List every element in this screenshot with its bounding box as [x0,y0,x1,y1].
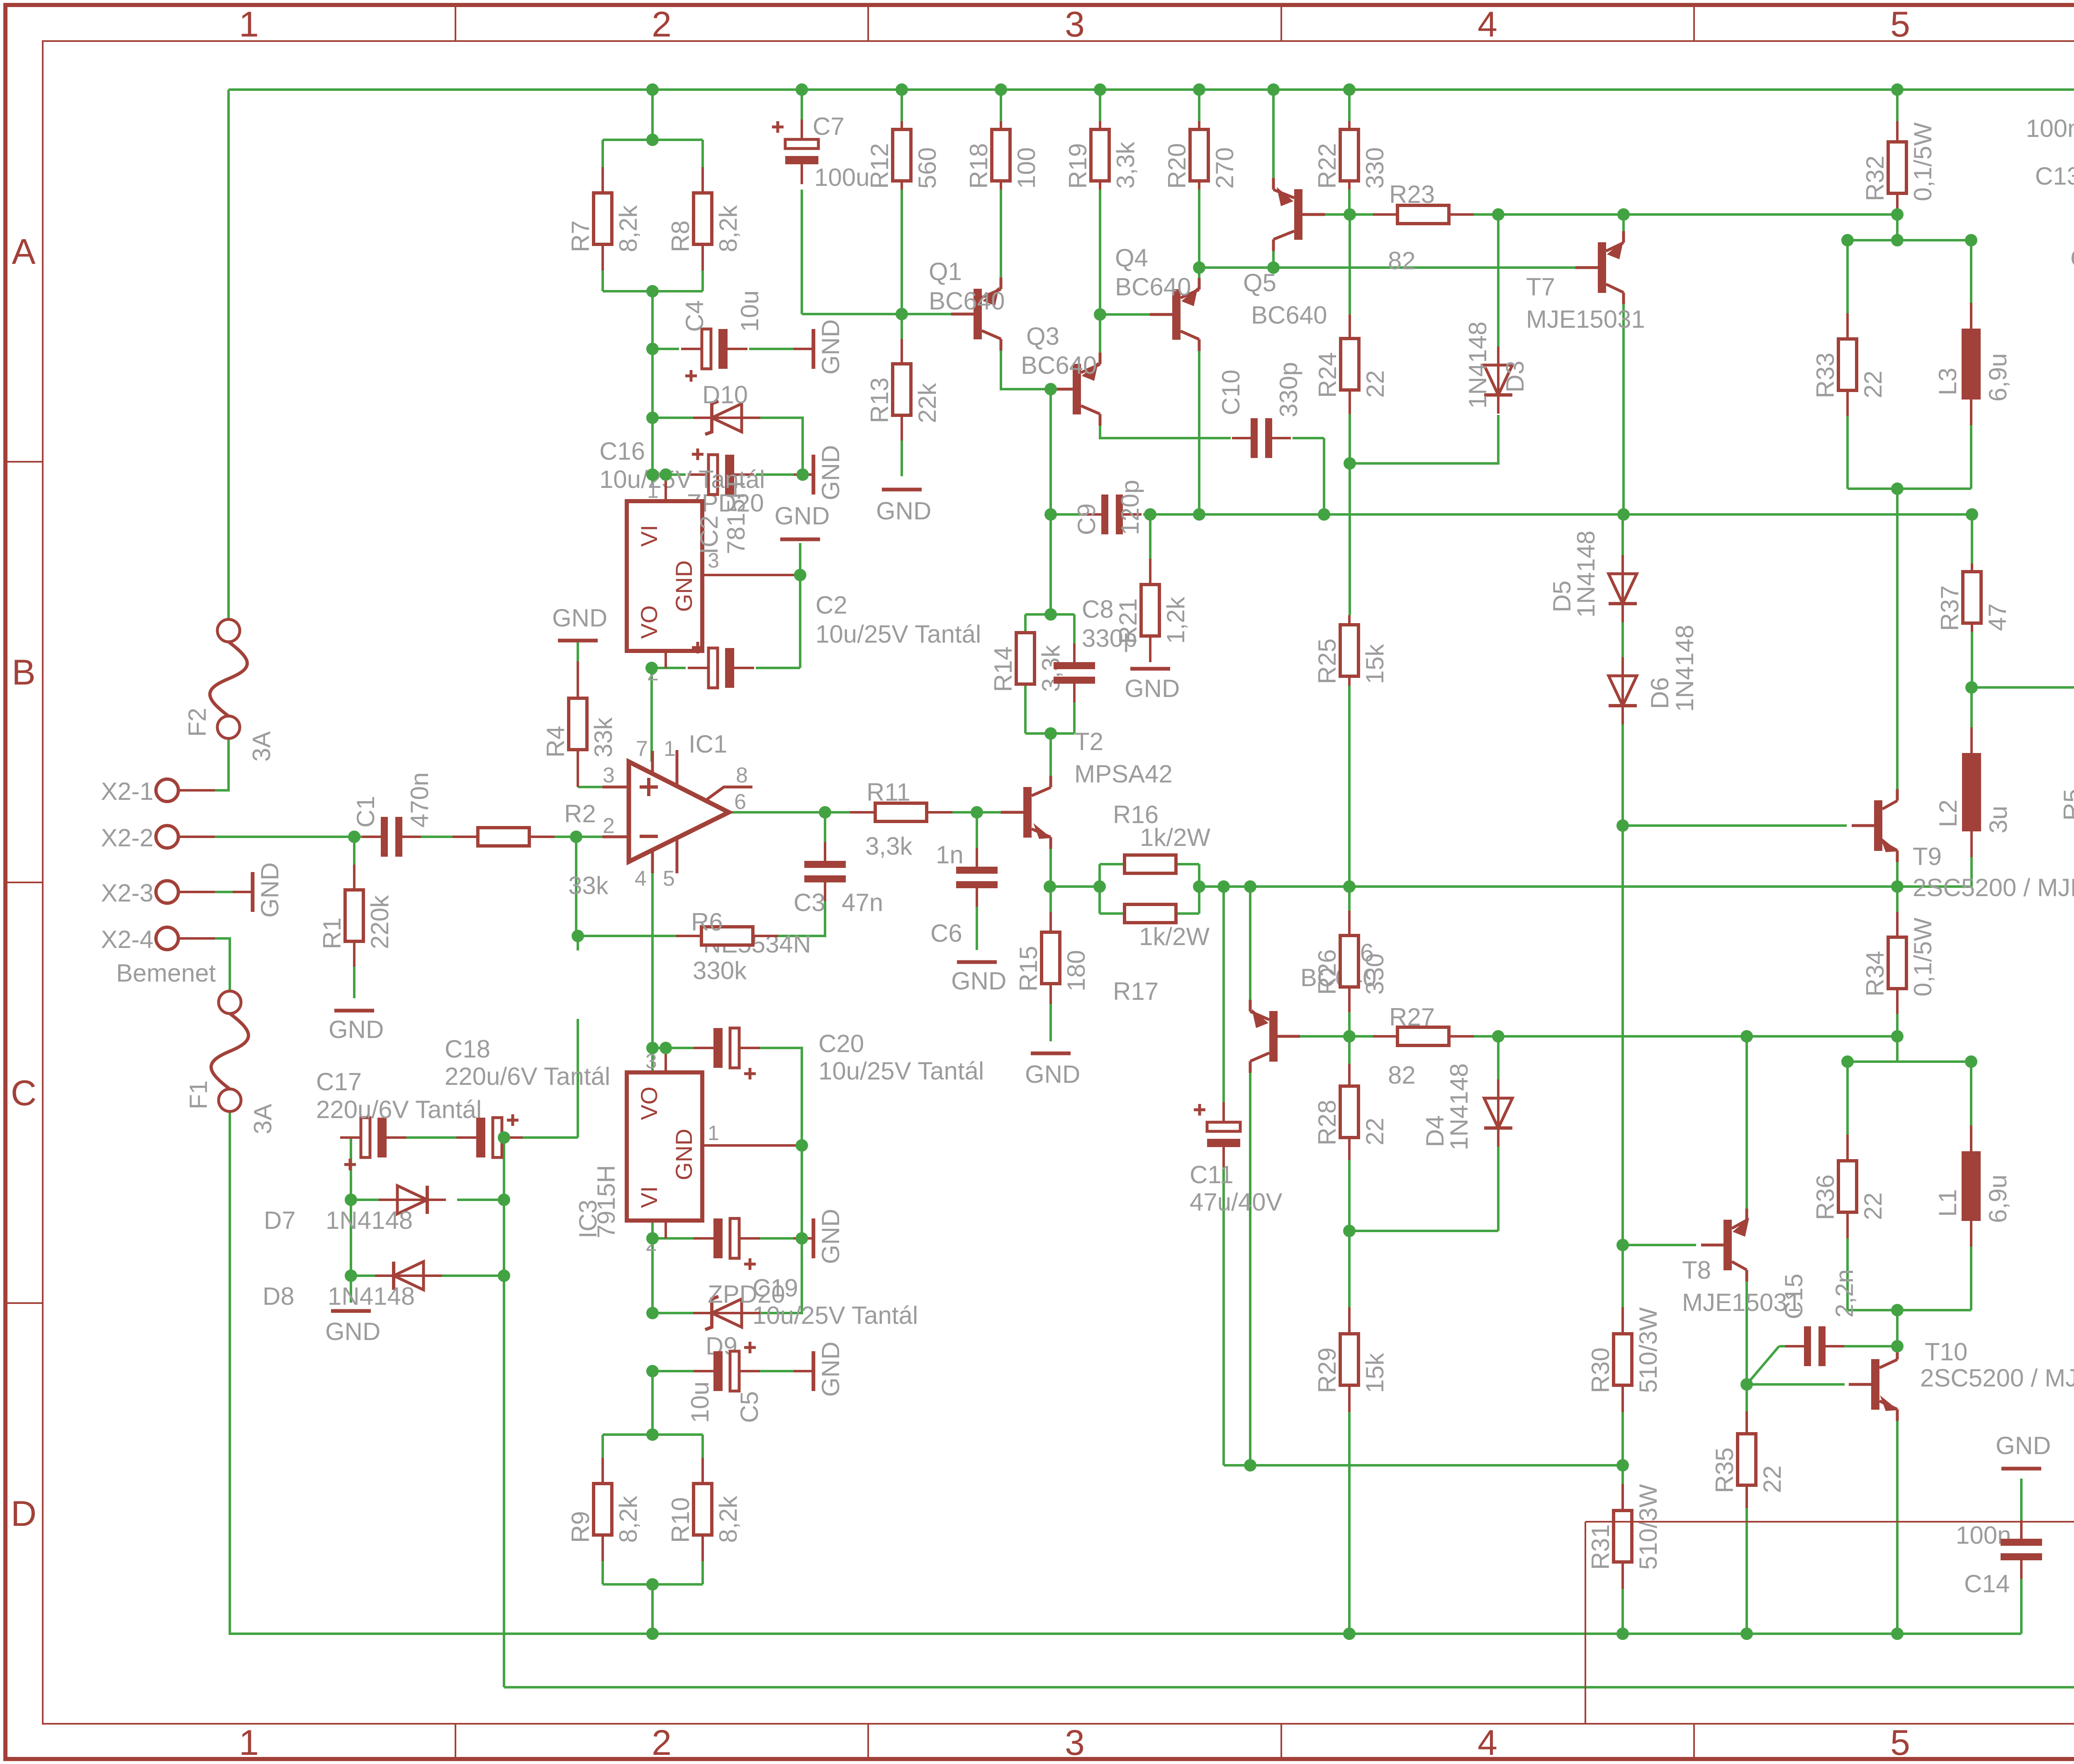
capacitor C20 [694,1028,760,1079]
wire bottom supply rail [229,1632,2021,1635]
wire to R15 [1049,887,1052,912]
wire to T9 base [1623,824,1847,827]
svg-text:220k: 220k [366,895,394,949]
wire to R23 [1349,213,1373,216]
wire D9 to C19 line [742,1238,802,1313]
transistor Q5 [1273,178,1325,251]
svg-text:R31: R31 [1587,1524,1614,1570]
svg-text:4: 4 [1478,5,1497,44]
junction [646,1428,659,1441]
resistor R16 [1125,855,1176,873]
wire T8 collector to T10 base [1745,1281,1748,1384]
svg-text:R20: R20 [1163,143,1191,189]
resistor R15 [1015,912,1090,1004]
junction [1094,308,1106,321]
resistor R20 [1163,121,1239,190]
wire R7R8 bottom bar [603,290,703,292]
wire R16R17 right bar [1198,864,1200,914]
resistor R5 [2059,736,2074,838]
svg-text:BC640: BC640 [1021,351,1097,379]
wire rail to R32 [1896,90,1899,121]
wire to R21 [1149,514,1151,559]
wire to C20 [652,1047,712,1049]
wire C14 to ground [2020,1479,2023,1538]
wire R14 C8 top bar [1025,613,1074,616]
svg-text:Q4: Q4 [1115,244,1148,272]
junction [498,1131,510,1144]
frame column tick 4|5 top [1693,5,1695,41]
svg-text:GND: GND [817,445,845,500]
wire +supply top rail [229,88,2074,91]
wire to T7 collector [1324,513,1624,516]
fuse F1 [185,991,277,1134]
wire C9 to C10 branch [1143,513,1324,516]
svg-text:C7: C7 [813,112,845,140]
resistor R12 [866,121,941,190]
svg-text:GND: GND [256,863,284,918]
capacitor C16 [688,448,754,495]
junction [572,930,584,942]
voltage regulator IC3 7915H [574,1048,802,1255]
frame row tick A|B left [5,461,43,463]
svg-text:100u: 100u [814,163,869,191]
svg-text:R9: R9 [567,1511,594,1543]
wire Q6 collector down [1249,1072,1251,1465]
svg-text:33k: 33k [568,872,609,899]
svg-text:R25: R25 [1313,638,1341,684]
svg-text:8: 8 [736,763,748,787]
wire R10 top [701,1435,704,1458]
svg-text:GND: GND [817,1342,845,1397]
svg-text:22: 22 [1859,370,1887,398]
junction [646,412,659,424]
inductor L2 [1934,727,2012,857]
wire R7 bottom [601,270,604,291]
wire to R35 [1745,1384,1748,1411]
wire R36 bottom [1846,1238,1849,1310]
svg-text:R36: R36 [1811,1174,1839,1220]
wire L3 bottom [1970,400,1972,489]
frame column tick 3|4 top [1280,5,1282,41]
wire R36 L1 bottom bar [1848,1309,1971,1311]
junction [1343,83,1356,96]
diode D3 [1484,346,1512,414]
ground [794,1209,845,1264]
svg-text:C3: C3 [794,889,825,916]
wire T8 emitter line to R34 [1747,1035,1897,1038]
svg-text:8,2k: 8,2k [614,205,642,252]
svg-text:100n: 100n [2026,115,2074,142]
svg-text:0,1/5W: 0,1/5W [1909,122,1937,201]
transistor T2 [1001,776,1052,849]
svg-text:470n: 470n [406,772,433,828]
resistor R1 [318,865,394,967]
svg-text:F1: F1 [185,1080,212,1109]
junction [1891,234,1904,246]
svg-text:L1: L1 [1934,1189,1962,1217]
capacitor C7 [772,119,818,184]
wire C2 right [756,667,800,669]
wire R29 to bottom rail [1348,1412,1351,1634]
svg-text:C15: C15 [1780,1274,1808,1319]
svg-text:10u/25V Tantál: 10u/25V Tantál [818,1057,984,1085]
junction [1891,880,1904,893]
ground [794,1342,845,1397]
transistor Q3 [1050,353,1100,426]
wire C17 left column [350,1138,352,1276]
wire Q3 collector to C10 line [1100,425,1158,438]
frame column tick 2|3 top [867,5,869,41]
junction [1741,1628,1753,1640]
ground [1125,669,1180,702]
wire rail to R12 [901,90,903,121]
wire C19 to ground [740,1237,794,1240]
svg-text:R35: R35 [1711,1447,1738,1493]
wire rail up to C14 [2020,1561,2023,1634]
junction [1094,83,1106,96]
wire R33 L3 bottom bar [1848,487,1971,490]
wire Q5 collector to T7 base [1199,266,1575,269]
wire junction to R13 [901,314,903,339]
wire rail to R19 [1099,90,1101,121]
wire box to T2 collector [1049,733,1052,777]
junction [796,1139,808,1152]
diode D8 [375,1262,442,1290]
svg-text:T10: T10 [1925,1338,1967,1366]
transistor Q1 [951,278,1001,351]
wire VAS node to C9 [1051,513,1081,516]
svg-text:22: 22 [1361,370,1389,398]
svg-text:10u/25V Tantál: 10u/25V Tantál [815,620,981,648]
junction [646,134,659,146]
wire to C5 [652,1370,712,1372]
wire to C4 [652,348,679,350]
junction [1741,1378,1753,1391]
svg-text:D8: D8 [263,1282,295,1310]
svg-text:R23: R23 [1389,180,1435,208]
wire T8 base line [1623,1244,1696,1246]
svg-text:510/3W: 510/3W [1634,1307,1662,1393]
transistor T8 [1701,1208,1749,1282]
junction [1217,880,1230,893]
svg-text:2: 2 [652,1723,672,1763]
resistor R23 [1373,180,1474,275]
transistor T9 [1852,789,1898,862]
wire D8 right [424,1274,504,1277]
resistor R27 [1373,1003,1474,1089]
resistor R36 [1811,1135,1887,1238]
svg-text:22: 22 [1361,1118,1389,1145]
junction [1343,880,1356,893]
svg-text:5: 5 [1890,5,1910,44]
resistor R10 [667,1458,742,1561]
svg-text:270: 270 [1211,147,1239,189]
junction [1965,681,1978,694]
wire R25 to mid rail [1348,686,1351,887]
svg-text:R5: R5 [2059,789,2074,821]
wire R27 to T8 emitter line [1474,1035,1747,1038]
frame column tick 3|4 bottom [1280,1724,1282,1759]
svg-text:6: 6 [734,790,746,814]
svg-text:33k: 33k [589,717,617,758]
svg-text:4: 4 [635,867,647,891]
svg-text:X2-4: X2-4 [101,926,153,953]
junction [796,468,809,481]
wire T10 emitter to bottom rail [1896,1420,1899,1634]
svg-text:1: 1 [647,479,659,502]
wire to D9 [652,1312,712,1314]
junction [1093,880,1106,893]
connector pad X2-1 [101,777,215,805]
resistor R13 [866,339,941,441]
capacitor C9 [1083,495,1142,534]
svg-text:47u/40V: 47u/40V [1190,1188,1283,1216]
wire R37 to output node [1971,632,1973,687]
capacitor C14 [2001,1520,2042,1579]
junction [1891,208,1904,221]
svg-text:1k/2W: 1k/2W [1140,824,1210,851]
wire R19 node to Q4 base [1100,313,1150,316]
wire D10 right [742,418,803,475]
wire C17 to C18 [386,1136,477,1139]
wire T2 emitter down [1049,848,1052,887]
svg-text:1,2k: 1,2k [1162,597,1190,644]
svg-text:330: 330 [1361,147,1389,189]
svg-text:330k: 330k [693,957,747,984]
wire R19 to Q3 emitter [1099,190,1101,353]
wire R10 bottom [701,1561,704,1584]
junction [796,83,808,96]
junction [1267,83,1280,96]
frame column tick 1|2 bottom [455,1724,456,1759]
wire R26 bottom [1348,1012,1351,1036]
wire C15 diagonal to T10 base [1747,1346,1779,1384]
junction [1044,508,1057,521]
svg-text:C2: C2 [815,591,847,619]
wire R15 to ground [1049,1004,1052,1041]
resistor R24 [1314,314,1389,414]
svg-text:3,3k: 3,3k [1112,141,1139,189]
svg-text:GND: GND [1125,675,1180,702]
wire C20 to IC3 pin1 [740,1048,802,1145]
svg-text:8,2k: 8,2k [614,1496,642,1543]
svg-text:6,9u: 6,9u [1984,1174,2012,1223]
wire IC2 pin3 to C2 [799,575,801,668]
wire IC1 output to R11 [729,811,850,814]
wire R28 bottom [1348,1160,1351,1231]
wire down to R14 C8 box [1049,514,1052,614]
junction [646,468,659,481]
wire C6 bottom [976,888,978,950]
transistor T10 [1849,1348,1898,1421]
resistor R6 [676,908,778,984]
wire rail to C7 [801,90,803,121]
wire C11 down [1222,1150,1225,1465]
wire Q1 collector to Q3 base [1001,350,1050,389]
frame column tick 1|2 top [455,5,456,41]
svg-text:2SC5200 / MJL3281A: 2SC5200 / MJL3281A [1913,874,2074,901]
wire mid rail to R34 [1896,887,1899,912]
svg-text:GND: GND [552,604,607,632]
svg-text:C5: C5 [735,1391,763,1423]
resistor R28 [1313,1064,1389,1160]
svg-text:R4: R4 [542,726,570,758]
svg-text:T7: T7 [1526,273,1555,301]
wire R33 bottom [1846,416,1849,489]
resistor R21 [1114,559,1190,662]
junction [645,662,658,674]
wire to L1 top [1970,1062,1972,1151]
wire D4 to R28 line [1497,1147,1500,1231]
svg-text:GND: GND [2070,244,2074,272]
fuse F2 [183,619,275,762]
junction [1616,1459,1629,1472]
wire to L3 top [1970,240,1972,303]
junction [1344,457,1356,470]
svg-text:GND: GND [817,1209,845,1264]
wire R31 to bottom rail [1621,1589,1624,1634]
wire L2 down to mid rail [1970,850,1973,887]
svg-text:1k/2W: 1k/2W [1139,923,1210,950]
wire R14 top stub [1024,614,1027,633]
junction [1965,234,1977,246]
ground [325,1311,380,1345]
capacitor C11 [1194,1102,1240,1167]
resistor R35 [1711,1411,1786,1508]
resistor R11 [850,778,952,860]
diode D7 [379,1186,446,1214]
diode D4 [1484,1079,1512,1147]
junction [1044,727,1057,740]
svg-text:330p: 330p [1275,362,1302,417]
wire C4 to ground [749,348,794,350]
wire R17 left [1100,912,1125,915]
wire T7 collector down [1622,303,1625,514]
wire T7 collector rail to R37 [1624,513,1972,516]
svg-text:D4: D4 [1421,1115,1449,1147]
frame row tick B|C left [5,882,43,883]
wire C1 to R2 [414,836,453,838]
wire +20V node column [651,291,654,483]
wire inverting node down [575,837,577,936]
wire to D8 [351,1274,394,1277]
junction [1244,1459,1256,1472]
junction [1841,1055,1854,1068]
wire R9R10 bottom bar [603,1583,703,1586]
wire to R6 [576,935,676,937]
junction [1193,508,1205,521]
resistor R7 [567,167,642,270]
svg-text:R12: R12 [866,143,893,189]
zener diode D9 [693,1296,760,1330]
svg-text:R2: R2 [564,800,596,828]
resistor R4 [542,661,617,787]
svg-text:R33: R33 [1811,353,1839,398]
resistor R30 [1587,1307,1662,1412]
svg-text:3: 3 [1065,1723,1085,1763]
wire ground return rail [504,1686,2074,1688]
wire to R1 [353,837,355,865]
svg-text:R19: R19 [1064,143,1092,189]
capacitor C17 [340,1118,407,1170]
wire box to T10 collector node [1896,1310,1899,1346]
svg-text:560: 560 [913,147,941,189]
svg-text:1: 1 [664,737,676,761]
resistor R25 [1313,615,1389,686]
svg-text:6,9u: 6,9u [1984,353,2012,402]
svg-text:10u: 10u [686,1381,714,1423]
wire to C16 [652,473,686,476]
wire C10 right [1293,437,1324,439]
svg-text:D6: D6 [1646,677,1674,709]
wire IC2 pin1 up [665,475,667,501]
resistor R29 [1313,1307,1389,1412]
svg-text:X2-3: X2-3 [101,879,153,907]
wire to R3 [577,936,579,950]
wire C11 to R30 R31 node [1224,1464,1623,1467]
svg-text:R11: R11 [867,778,910,806]
wire R35 to bottom rail [1745,1508,1748,1634]
transistor T7 [1575,231,1624,304]
svg-text:C20: C20 [818,1030,864,1057]
junction [1244,880,1256,893]
junction [646,1042,659,1054]
junction [1966,508,1978,521]
wire R33 L3 top bar [1848,239,1971,241]
svg-text:10u: 10u [736,290,764,332]
wire to T9 collector [1896,489,1899,790]
junction [1193,83,1205,96]
wire to R8 top [701,140,704,167]
wire T7 emitter stub [1622,214,1625,232]
svg-text:GND: GND [817,319,845,375]
svg-text:C14: C14 [1964,1570,2010,1598]
op-amp IC1 NE5534N [602,730,811,958]
svg-text:L2: L2 [1934,799,1962,827]
svg-text:R6: R6 [691,908,723,936]
svg-text:GND: GND [951,967,1006,995]
svg-text:7815H: 7815H [722,481,750,554]
resistor R34 [1861,912,1937,1014]
wire L1 bottom [1970,1221,1972,1310]
resistor R2 [453,800,609,899]
frame column tick 2|3 bottom [867,1724,869,1759]
wire C8 bottom stub [1073,685,1076,733]
wire output rail Kimenet [1972,686,2074,689]
svg-text:1N4148: 1N4148 [1445,1063,1473,1150]
svg-text:C: C [11,1073,37,1113]
junction [1193,261,1205,274]
capacitor C3 [804,842,846,901]
svg-text:15k: 15k [1361,643,1389,684]
wire R8 bottom [701,270,704,291]
svg-text:1: 1 [239,5,259,44]
svg-text:R32: R32 [1861,156,1889,201]
junction [1891,1304,1904,1316]
resistor R17 [1125,904,1176,923]
svg-text:L3: L3 [1934,368,1962,395]
junction [1144,508,1156,521]
wire down to R9R10 [651,1371,654,1435]
wire Q1 base line [802,313,951,315]
ground [1996,1432,2051,1469]
svg-text:R15: R15 [1015,946,1042,992]
svg-text:R1: R1 [318,917,346,949]
svg-text:1N4148: 1N4148 [1671,625,1699,712]
wire to R7 top [601,140,604,167]
junction [1492,1030,1504,1043]
svg-text:0,1/5W: 0,1/5W [1909,918,1937,997]
